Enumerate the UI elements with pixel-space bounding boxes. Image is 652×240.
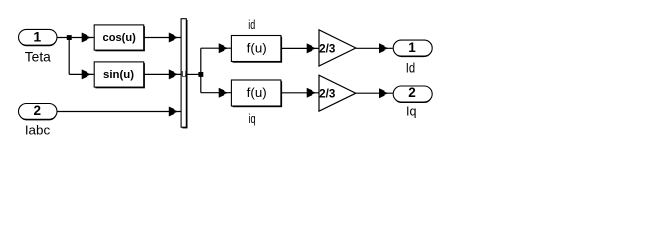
svg-text:cos(u): cos(u) [103,32,137,44]
svg-text:Iabc: Iabc [25,123,50,137]
svg-text:Iq: Iq [406,104,417,119]
svg-text:f(u): f(u) [247,86,267,100]
svg-text:u: u [181,68,187,80]
svg-text:2: 2 [408,85,416,100]
svg-text:2: 2 [34,103,42,118]
svg-text:1: 1 [408,40,416,55]
svg-text:2/3: 2/3 [319,44,335,56]
svg-text:Teta: Teta [25,49,51,65]
svg-text:sin(u): sin(u) [103,69,134,81]
svg-text:Id: Id [406,60,415,75]
svg-text:id: id [248,17,255,32]
svg-text:f(u): f(u) [247,42,267,56]
svg-text:1: 1 [33,29,41,45]
svg-text:2/3: 2/3 [319,88,335,100]
svg-text:iq: iq [248,111,255,126]
